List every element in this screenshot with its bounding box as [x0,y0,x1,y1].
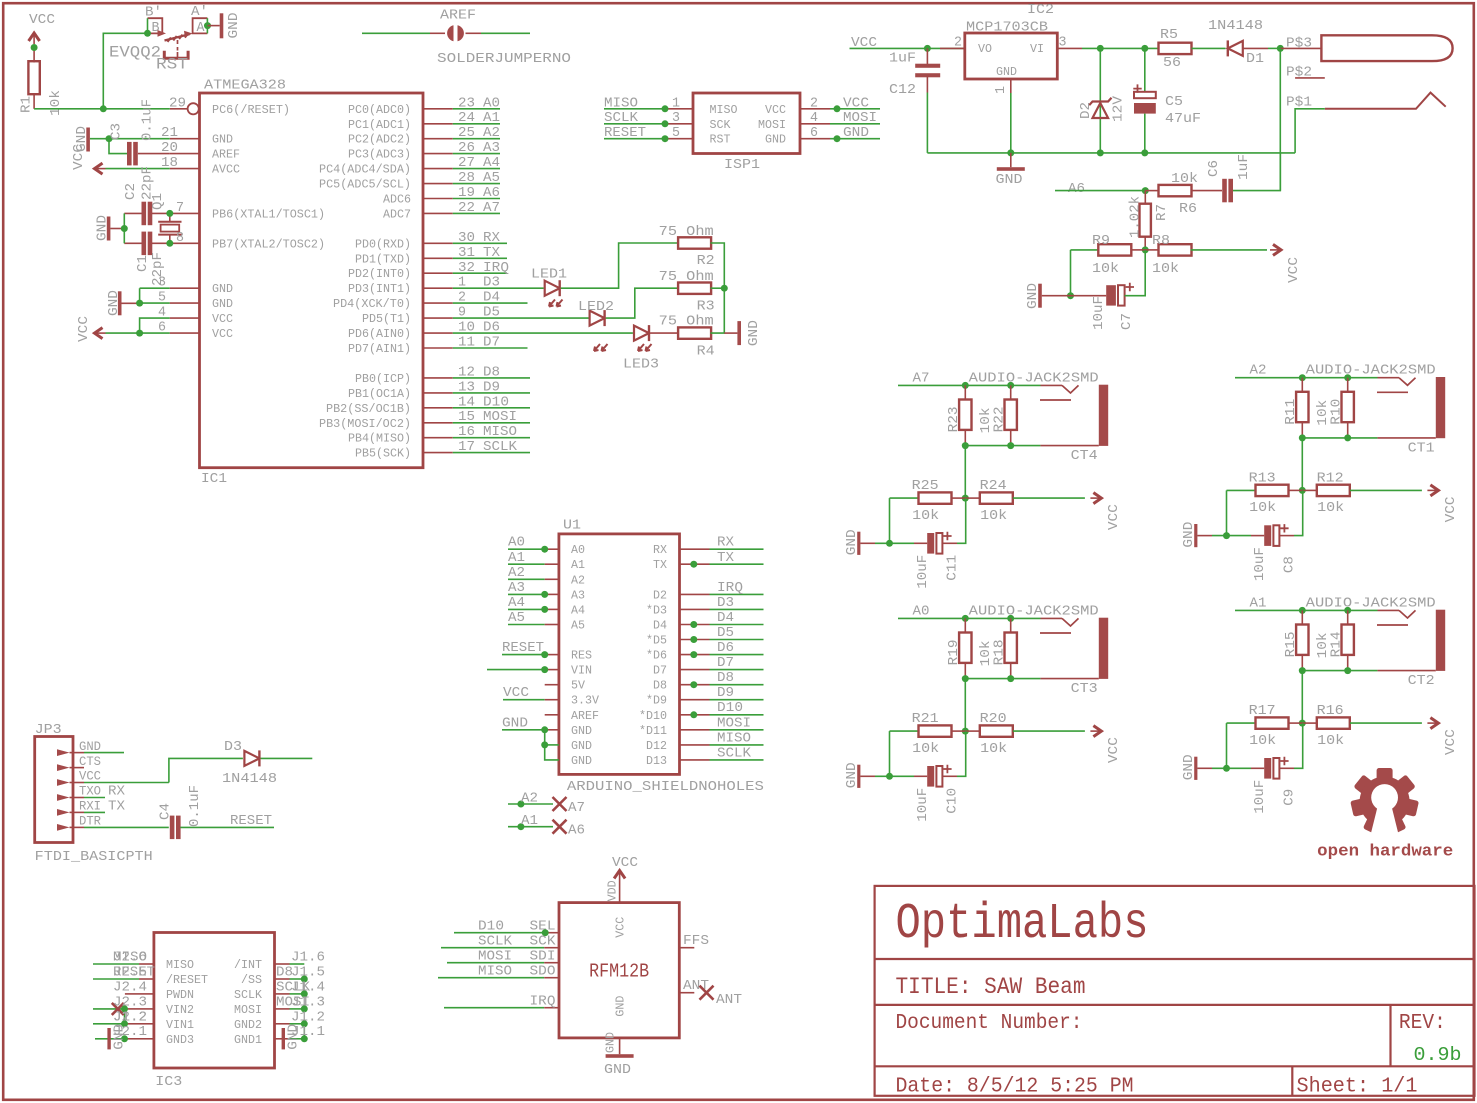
svg-text:VCC: VCC [212,327,233,341]
junction dots ISP1 left [662,105,669,112]
open hardware logo gear [1350,768,1419,840]
svg-text:R18: R18 [991,639,1007,665]
svg-text:C10: C10 [945,788,961,814]
svg-text:PC5(ADC5/SCL): PC5(ADC5/SCL) [319,178,411,192]
svg-text:Date: 8/5/12 5:25 PM: Date: 8/5/12 5:25 PM [896,1075,1134,1098]
svg-text:CT3: CT3 [1071,681,1098,697]
crystal Q1 [150,193,182,243]
capacitor C11 polarized [875,498,966,589]
junction dot gnd CT3 [886,773,893,780]
svg-text:J2.3: J2.3 [113,994,147,1010]
svg-text:ADC6: ADC6 [383,193,411,207]
svg-text:D2: D2 [1078,102,1094,119]
svg-text:D2: D2 [653,588,667,602]
svg-text:FTDI_BASICPTH: FTDI_BASICPTH [35,849,153,865]
wire R9 to gnd [1070,250,1072,296]
svg-text:75 Ohm: 75 Ohm [659,224,714,240]
junction dot at B [144,30,151,37]
svg-text:LED1: LED1 [531,267,567,283]
ground symbol CT4 [844,529,875,555]
svg-text:VCC: VCC [212,312,233,326]
junction dot RESET [100,105,107,112]
svg-text:GND: GND [286,1024,302,1050]
resistor R9 [1071,233,1146,277]
svg-text:MISO: MISO [483,424,517,440]
junction dot R7/R8 [1142,246,1149,253]
wires VCC pins 4 6 [106,305,200,336]
svg-text:J2.6: J2.6 [113,950,147,966]
switch EVQQ2 blade [109,31,193,74]
svg-text:10uF: 10uF [1091,296,1107,330]
svg-text:C2: C2 [123,183,139,200]
svg-text:10k: 10k [1171,171,1198,187]
svg-text:VCC: VCC [503,685,529,701]
svg-text:1uF: 1uF [889,51,916,67]
IC IC2 MCP1703CB body [965,2,1058,79]
svg-text:D8: D8 [483,364,500,380]
svg-text:A3: A3 [508,580,525,596]
svg-text:LED3: LED3 [623,356,659,372]
svg-text:10k: 10k [1249,733,1276,749]
svg-text:R25: R25 [912,478,939,494]
svg-text:SCLK: SCLK [717,745,752,761]
svg-text:0.1uF: 0.1uF [187,785,203,827]
IC2 pin1 stub [993,79,1011,153]
svg-text:VI: VI [1030,42,1044,56]
svg-text:SDI: SDI [530,949,556,965]
capacitor C7 polarized [1071,250,1146,330]
svg-text:1.02k: 1.02k [1128,196,1144,238]
svg-text:10uF: 10uF [915,788,931,822]
svg-text:RESET: RESET [230,813,272,829]
svg-text:VDD: VDD [606,880,620,901]
wire R21 to gnd CT3 [889,731,891,776]
solder jumper SJ1 AREF [362,8,571,68]
resistor R2 [659,224,715,269]
svg-text:D8: D8 [653,679,667,693]
audio jack CT1 [1306,363,1446,457]
net P$3 vertical to C6 [1279,48,1281,190]
junction dot P$3 [1277,45,1284,52]
svg-text:RXI: RXI [79,799,101,814]
svg-text:R23: R23 [946,406,962,432]
junction dot at A [204,22,211,29]
svg-text:VCC: VCC [29,12,55,28]
resistor R11 [1283,378,1331,438]
RFM12B GND pin and ground [604,1032,634,1078]
junction dot C7 gnd [1067,292,1074,299]
svg-text:D8: D8 [717,670,734,686]
svg-text:P$3: P$3 [1286,36,1312,52]
svg-text:FFS: FFS [683,933,709,949]
junction dot rail pin1 [1007,149,1014,156]
svg-text:PB0(ICP): PB0(ICP) [355,372,411,386]
resistor R24 [965,478,1085,524]
SAW device CT body [1286,35,1453,110]
junction dots jack CT3 bottom [962,675,969,682]
svg-text:VCC: VCC [843,95,869,111]
VCC arrow AVCC [71,144,200,174]
svg-text:VIN1: VIN1 [166,1018,194,1032]
svg-text:1uF: 1uF [1236,154,1252,180]
svg-text:AUDIO-JACK2SMD: AUDIO-JACK2SMD [969,370,1099,386]
wire sleeve net CT1 [1302,437,1377,439]
net label A2 wire jack CT1 [1235,363,1378,379]
net wire RESET from R1 to pin29 and EVQQ2 [34,33,170,109]
svg-text:MOSI: MOSI [483,409,517,425]
VCC symbol top-left [29,12,55,44]
svg-text:PB7(XTAL2/TOSC2): PB7(XTAL2/TOSC2) [212,237,325,251]
pin 29 inverted circle [188,103,199,114]
ISP1 pin names [710,103,787,147]
svg-text:10k: 10k [1317,733,1344,749]
svg-text:*D6: *D6 [646,649,667,663]
svg-text:R8: R8 [1152,233,1170,249]
svg-text:D4: D4 [653,619,667,633]
svg-text:SCK: SCK [710,118,732,132]
svg-text:A2: A2 [483,125,500,141]
svg-text:VCC: VCC [71,144,87,170]
svg-text:A5: A5 [483,170,500,186]
svg-text:VCC: VCC [76,316,92,342]
resistor R8 [1145,233,1267,277]
svg-text:GND: GND [571,724,592,738]
svg-text:PB6(XTAL1/TOSC1): PB6(XTAL1/TOSC1) [212,207,325,221]
svg-text:D3: D3 [224,739,242,755]
svg-text:20: 20 [161,140,178,156]
svg-text:TX: TX [653,558,667,572]
svg-text:R2: R2 [697,253,715,269]
svg-text:MOSI: MOSI [478,949,512,965]
svg-text:1: 1 [672,95,680,111]
svg-text:10k: 10k [980,508,1007,524]
svg-text:C3: C3 [109,123,125,140]
svg-text:*D10: *D10 [639,709,667,723]
svg-text:PB5(SCK): PB5(SCK) [355,447,411,461]
svg-text:LED2: LED2 [578,299,614,315]
svg-text:18: 18 [161,155,178,171]
svg-text:TX: TX [483,245,501,261]
svg-text:10k: 10k [980,741,1007,757]
resistor R18 [991,618,1017,678]
svg-text:3: 3 [672,110,680,126]
svg-text:SCLK: SCLK [234,988,263,1002]
svg-text:10uF: 10uF [1252,547,1268,581]
svg-text:1N4148: 1N4148 [222,771,277,787]
svg-text:SOLDERJUMPERNO: SOLDERJUMPERNO [437,51,571,67]
LED LED3 [453,325,659,372]
svg-text:D7: D7 [717,655,734,671]
svg-text:RESET: RESET [604,125,646,141]
resistor R7 [1128,191,1171,250]
svg-text:4: 4 [810,110,818,126]
IC1 left pin names [212,103,325,341]
svg-text:*D3: *D3 [646,603,667,617]
svg-text:PD0(RXD): PD0(RXD) [355,237,411,251]
junction dots jack CT3 top [962,615,969,622]
svg-text:VCC: VCC [1443,729,1459,755]
IC IC1 ATMEGA328 body [200,78,424,488]
svg-text:J2.5: J2.5 [113,965,147,981]
svg-text:TITLE: SAW Beam: TITLE: SAW Beam [896,974,1086,1000]
svg-text:A7: A7 [913,370,930,386]
svg-text:0.9b: 0.9b [1414,1044,1462,1066]
svg-text:R3: R3 [697,299,715,315]
svg-text:GND: GND [604,1062,631,1078]
svg-text:ATMEGA328: ATMEGA328 [204,78,286,94]
resistor R3 [659,269,715,315]
svg-text:PB2(SS/OC1B): PB2(SS/OC1B) [326,402,411,416]
svg-text:GND: GND [502,715,528,731]
svg-text:10uF: 10uF [915,555,931,589]
junction dots jack CT1 bottom [1299,434,1306,441]
svg-text:AVCC: AVCC [212,163,240,177]
net tie A2 to A7 [508,791,585,817]
svg-text:VCC: VCC [1443,496,1459,522]
VCC arrow IC1 supply [76,316,106,342]
LED LED2 [453,299,614,351]
svg-text:D1: D1 [1246,51,1264,67]
svg-text:C7: C7 [1119,313,1135,330]
RFM12B left pins and nets [438,919,559,1010]
VCC arrow CT2 [1427,718,1459,756]
junction dot divider CT1 [1299,487,1306,494]
svg-text:75 Ohm: 75 Ohm [659,269,714,285]
IC3 pin names [166,958,263,1047]
svg-text:J1.3: J1.3 [291,994,325,1010]
svg-text:OptimaLabs: OptimaLabs [896,896,1149,953]
svg-text:GND: GND [996,65,1017,79]
svg-text:10k: 10k [1249,500,1276,516]
wire divider CT2 [1301,671,1303,724]
junction dot C3/GND [106,135,113,142]
capacitor C8 polarized [1212,490,1303,581]
svg-text:75 Ohm: 75 Ohm [659,314,714,330]
svg-text:SCK: SCK [530,934,557,950]
svg-text:C1: C1 [135,255,151,272]
ISP1 right wires VCC MOSI GND [800,95,880,142]
net label A0 wire jack CT3 [898,603,1041,619]
svg-text:5: 5 [672,125,680,141]
svg-text:PB3(MOSI/OC2): PB3(MOSI/OC2) [319,417,411,431]
net label A7 wire jack CT4 [898,370,1041,386]
svg-text:R20: R20 [980,711,1007,727]
wires GND pins 3 5 [140,275,200,306]
svg-text:GND: GND [844,529,860,555]
wire divider CT3 [964,679,966,732]
svg-text:A4: A4 [571,603,585,617]
svg-text:MOSI: MOSI [717,715,751,731]
svg-text:EVQQ2: EVQQ2 [109,44,161,62]
resistor R14 [1328,610,1354,670]
svg-text:RST: RST [156,56,188,74]
VCC arrow CT4 [1090,493,1122,530]
IC2 pin3 wire [1057,35,1158,51]
svg-text:R5: R5 [1160,27,1178,43]
wire A to GND [208,25,220,27]
svg-text:IC1: IC1 [201,471,227,487]
resistor R12 [1302,470,1422,516]
junction dots jack CT2 bottom [1299,667,1306,674]
svg-text:SDO: SDO [530,964,556,980]
IC1 right net labels and wires [453,95,530,455]
svg-text:AREF: AREF [571,709,599,723]
svg-text:SCLK: SCLK [604,110,639,126]
svg-text:J1.6: J1.6 [291,950,325,966]
svg-text:A4: A4 [483,155,500,171]
ISP1 left wires MISO SCLK RESET [604,95,693,141]
capacitor C2 [123,166,170,225]
svg-text:RST: RST [710,133,731,147]
wire sleeve net CT2 [1302,670,1377,672]
IC3 right wires [275,964,308,1042]
JP3 pin wires [73,753,169,828]
junction dot C5 top [1141,45,1148,52]
zener diode D2 [1078,48,1127,152]
junction dot gnd CT1 [1223,532,1230,539]
wires crystal to IC1 pins 7 8 [170,200,200,246]
svg-text:R15: R15 [1283,631,1299,657]
svg-text:GND: GND [604,1032,618,1053]
ground symbol CT1 [1181,522,1212,548]
junction dots crystal [166,210,173,217]
svg-text:J1.5: J1.5 [291,965,325,981]
svg-text:VIN2: VIN2 [166,1003,194,1017]
svg-text:A3: A3 [571,588,585,602]
svg-text:VCC: VCC [1106,737,1122,763]
svg-text:PD7(AIN1): PD7(AIN1) [348,342,411,356]
junction dots jack CT2 top [1299,607,1306,614]
svg-text:A7: A7 [483,200,500,216]
wire sleeve net CT4 [965,445,1040,447]
svg-text:IC3: IC3 [155,1074,182,1090]
svg-text:4: 4 [158,305,166,321]
svg-text:IC2: IC2 [1027,2,1054,18]
net label A6 wire [1055,181,1145,197]
IC1 right pin names [319,103,411,461]
svg-text:D12: D12 [646,739,667,753]
svg-text:10k: 10k [48,90,64,116]
svg-text:PD4(XCK/T0): PD4(XCK/T0) [333,297,411,311]
ground symbol CT3 [844,762,875,788]
svg-text:D10: D10 [717,700,743,716]
svg-text:D7: D7 [483,335,500,351]
svg-text:A5: A5 [508,610,525,626]
IC RFM1 RFM12B body [559,903,679,1038]
junction dot R3 common [721,285,728,292]
svg-text:REV:: REV: [1399,1012,1446,1035]
JP3 pin arrows [57,749,73,831]
net label VCC at IC2 [850,35,964,51]
capacitor C6 [1191,153,1281,202]
svg-text:GND: GND [112,1024,128,1050]
svg-text:R11: R11 [1283,399,1299,425]
resistor R13 [1227,470,1303,516]
svg-text:A: A [197,20,206,36]
svg-text:C5: C5 [1165,94,1183,110]
RFM12B right pins FFS ANT [679,933,742,1008]
svg-text:VCC: VCC [612,855,638,871]
wire P$3 to SAW [1280,36,1321,52]
svg-text:PWDN: PWDN [166,988,194,1002]
junction dot gnd CT4 [886,540,893,547]
svg-text:GND: GND [212,297,233,311]
svg-text:D9: D9 [717,685,734,701]
svg-text:2: 2 [954,35,962,51]
svg-text:R21: R21 [912,711,939,727]
svg-text:PC2(ADC2): PC2(ADC2) [348,133,411,147]
IC ISP1 header body [693,93,800,173]
junction dot R1/VCC [31,44,38,51]
svg-text:D6: D6 [717,640,734,656]
junction dot D2 top [1097,45,1104,52]
U1 left wires [487,535,559,760]
svg-text:A6: A6 [568,823,585,839]
svg-text:5: 5 [158,290,166,306]
svg-text:A7: A7 [568,800,585,816]
svg-text:C6: C6 [1206,160,1222,177]
svg-text:R19: R19 [946,639,962,665]
IC3 right labels [276,950,325,1041]
svg-text:RX: RX [108,784,126,800]
svg-text:GND: GND [746,320,762,346]
capacitor C4 [158,785,275,839]
net tie A1 to A6 [508,813,585,839]
svg-text:1: 1 [993,86,1009,94]
svg-text:C9: C9 [1282,789,1298,806]
svg-text:A6: A6 [1068,181,1085,197]
svg-text:D9: D9 [483,379,500,395]
svg-text:J1.4: J1.4 [291,979,325,995]
svg-text:CT4: CT4 [1071,448,1098,464]
wire crystal gnd [123,213,125,243]
svg-text:VCC: VCC [79,769,101,784]
junction dot divider CT2 [1299,720,1306,727]
svg-text:ARDUINO_SHIELDNOHOLES: ARDUINO_SHIELDNOHOLES [567,779,764,795]
svg-text:PC1(ADC1): PC1(ADC1) [348,118,411,132]
svg-text:GND: GND [95,215,111,241]
net label A1 wire jack CT2 [1235,595,1378,611]
svg-text:IRQ: IRQ [483,260,509,276]
svg-text:MISO: MISO [710,103,738,117]
wire LED2 to R3 [606,288,679,318]
svg-text:A2: A2 [1250,363,1267,379]
audio jack CT2 [1306,595,1446,689]
resistor R25 [890,478,966,524]
svg-text:PD6(AIN0): PD6(AIN0) [348,327,411,341]
U1 right pin names [639,543,667,768]
svg-text:SCLK: SCLK [483,439,518,455]
svg-text:AREF: AREF [212,148,240,162]
svg-text:MOSI: MOSI [234,1003,262,1017]
svg-text:A1: A1 [571,558,585,572]
capacitor C9 polarized [1212,723,1303,814]
svg-text:AUDIO-JACK2SMD: AUDIO-JACK2SMD [969,603,1099,619]
ground symbol near C3 [74,126,90,152]
svg-text:R9: R9 [1092,233,1110,249]
svg-text:R4: R4 [697,344,715,360]
svg-text:R6: R6 [1179,201,1197,217]
svg-text:A6: A6 [483,185,500,201]
svg-text:RESET: RESET [502,640,544,656]
svg-text:/INT: /INT [234,958,262,972]
svg-text:A2: A2 [571,573,585,587]
diode D1 [1192,18,1281,67]
svg-text:TX: TX [108,799,126,815]
svg-text:CT1: CT1 [1408,440,1435,456]
svg-text:*D5: *D5 [646,634,667,648]
svg-text:PB4(MISO): PB4(MISO) [348,432,411,446]
